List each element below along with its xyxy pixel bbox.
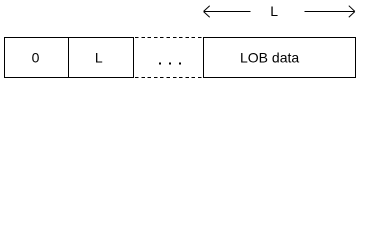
svg-text:L: L <box>270 3 278 19</box>
dimension arrow right segment <box>305 6 355 18</box>
dashed gap top edge <box>135 37 203 39</box>
dimension arrow left segment <box>204 6 251 18</box>
cell separator after L <box>133 37 135 78</box>
dashed gap bottom edge <box>135 77 203 79</box>
LOB data box <box>204 38 356 78</box>
svg-text:LOB data: LOB data <box>240 50 299 66</box>
svg-text:L: L <box>95 50 103 66</box>
cell separator between 0 and L <box>68 37 70 78</box>
svg-text:0: 0 <box>32 50 40 66</box>
record box solid part (cells 0 and L) <box>4 37 134 78</box>
ellipsis dots <box>159 63 181 65</box>
